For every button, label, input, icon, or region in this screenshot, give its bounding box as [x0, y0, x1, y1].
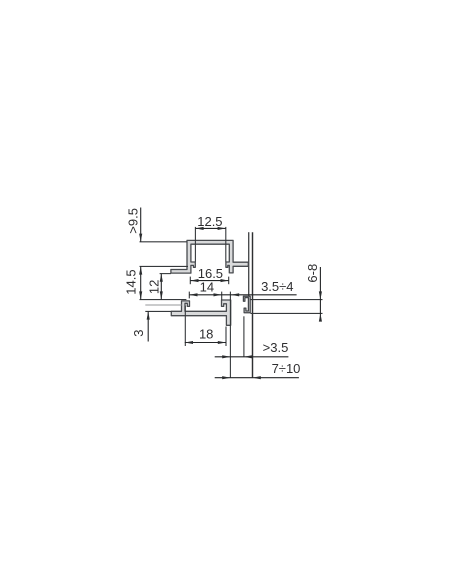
extension line 14 right: [221, 292, 223, 300]
dimension 12 (left inner): [160, 274, 163, 300]
svg-text:14.5: 14.5: [124, 269, 139, 294]
svg-text:7÷10: 7÷10: [272, 361, 301, 376]
dimension 3 (panel slot): [147, 311, 150, 341]
svg-text:>9.5: >9.5: [125, 208, 140, 234]
extension line hook left face (for >3.5 right): [243, 316, 245, 357]
extension line hook top right (for 6-8 top): [251, 299, 323, 301]
svg-text:3.5÷4: 3.5÷4: [261, 279, 293, 294]
extension line wall outer face (3.5÷4 right, runs down to 7÷10): [229, 292, 231, 378]
dimension 7÷10 (total depth): [215, 376, 299, 379]
svg-text:>3.5: >3.5: [263, 340, 289, 355]
svg-text:18: 18: [199, 327, 213, 342]
extension line lower plate top (for 3 bottom): [145, 310, 171, 312]
extension tick 16.5 left: [189, 277, 191, 285]
extension line hook bottom right (for 6-8 bottom): [251, 312, 323, 314]
svg-text:6-8: 6-8: [305, 264, 320, 283]
dimension >9.5 (open, above bead): [139, 208, 142, 242]
extension line 12.5 left: [194, 227, 196, 262]
dimension 12.5 (lip opening): [195, 227, 225, 230]
wall / panel line (right edge, runs down to 7÷10 dimension): [252, 232, 254, 378]
dimension 14.5 (left, bead lip to lower lip): [139, 266, 142, 299]
extension line plate bottom (for 12 top): [160, 273, 171, 275]
dimension 18 (lower channel inner width): [185, 341, 226, 344]
top channel profile (glazing bead with inner lips and side stub): [171, 240, 248, 273]
svg-text:14: 14: [200, 280, 214, 295]
extension line lower lip top left (for 14.5 / 12 bottom): [140, 299, 187, 301]
svg-text:3: 3: [131, 330, 146, 337]
svg-text:12: 12: [147, 280, 162, 294]
lower channel profile (U-tray with hooked lips, right leg): [171, 300, 230, 325]
extension tick 14 left: [188, 292, 190, 299]
dimension 16.5 (bead inner width): [190, 279, 228, 282]
extension line 18 right: [225, 327, 227, 347]
dimension >3.5 (gap): [215, 355, 289, 358]
glass pane left edge: [248, 232, 250, 296]
extension line lip head underside (for 3 top): [145, 304, 181, 306]
extension line 18 left: [184, 306, 186, 346]
gasket piece with upper and lower hooks on glass line: [243, 296, 250, 313]
extension tick 16.5 right: [228, 277, 230, 285]
svg-text:12.5: 12.5: [197, 214, 222, 229]
extension line 12.5 right: [225, 227, 227, 262]
extension line top of bead (for >9.5): [140, 241, 188, 243]
dimension 6-8 (right, hook height): [319, 267, 322, 322]
dimension 14 with chained 3.5÷4: [189, 293, 296, 296]
extension line lip underside (for 14.5 top): [140, 265, 189, 267]
